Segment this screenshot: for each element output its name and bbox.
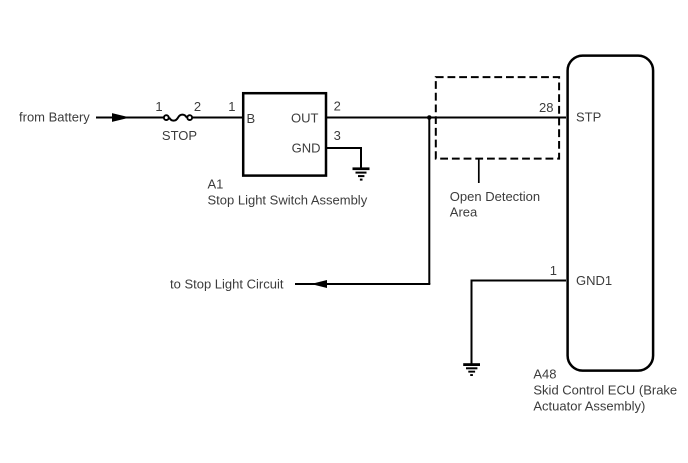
svg-text:Area: Area (450, 205, 478, 220)
svg-text:1: 1 (550, 263, 557, 278)
svg-text:2: 2 (334, 98, 341, 113)
svg-text:Skid Control ECU (Brake: Skid Control ECU (Brake (533, 383, 677, 398)
svg-text:STOP: STOP (162, 128, 197, 143)
svg-text:Open Detection: Open Detection (450, 189, 540, 204)
svg-text:A48: A48 (533, 366, 556, 381)
svg-text:A1: A1 (208, 177, 224, 192)
svg-text:1: 1 (228, 99, 235, 114)
svg-text:to Stop Light Circuit: to Stop Light Circuit (170, 277, 284, 292)
svg-text:28: 28 (539, 100, 553, 115)
svg-text:GND: GND (292, 141, 321, 156)
svg-text:from Battery: from Battery (19, 110, 90, 125)
svg-text:3: 3 (334, 128, 341, 143)
svg-text:1: 1 (155, 99, 162, 114)
svg-text:Stop Light Switch Assembly: Stop Light Switch Assembly (208, 193, 368, 208)
svg-text:OUT: OUT (291, 111, 319, 126)
svg-text:GND1: GND1 (576, 273, 612, 288)
svg-text:2: 2 (194, 99, 201, 114)
svg-text:Actuator Assembly): Actuator Assembly) (533, 399, 645, 414)
svg-text:B: B (247, 111, 256, 126)
svg-text:STP: STP (576, 110, 601, 125)
